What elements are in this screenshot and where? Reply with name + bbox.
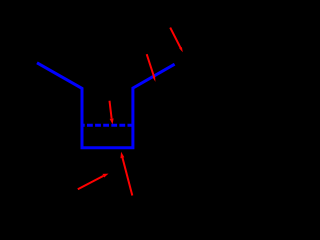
funnel and tank outline (blue polyline) [37, 63, 175, 148]
arrow C: red ray hitting funnel right wall [147, 54, 156, 82]
arrow E: pointer from lower-left (arrowhead up-right) [78, 174, 109, 190]
liquid level dashed line [81, 124, 134, 127]
arrow A: inflow arrow pointing down at liquid level [110, 101, 114, 125]
arrow D: pointer to tank bottom (arrowhead up) [120, 152, 132, 196]
arrow B: top-right red ray [170, 28, 183, 53]
